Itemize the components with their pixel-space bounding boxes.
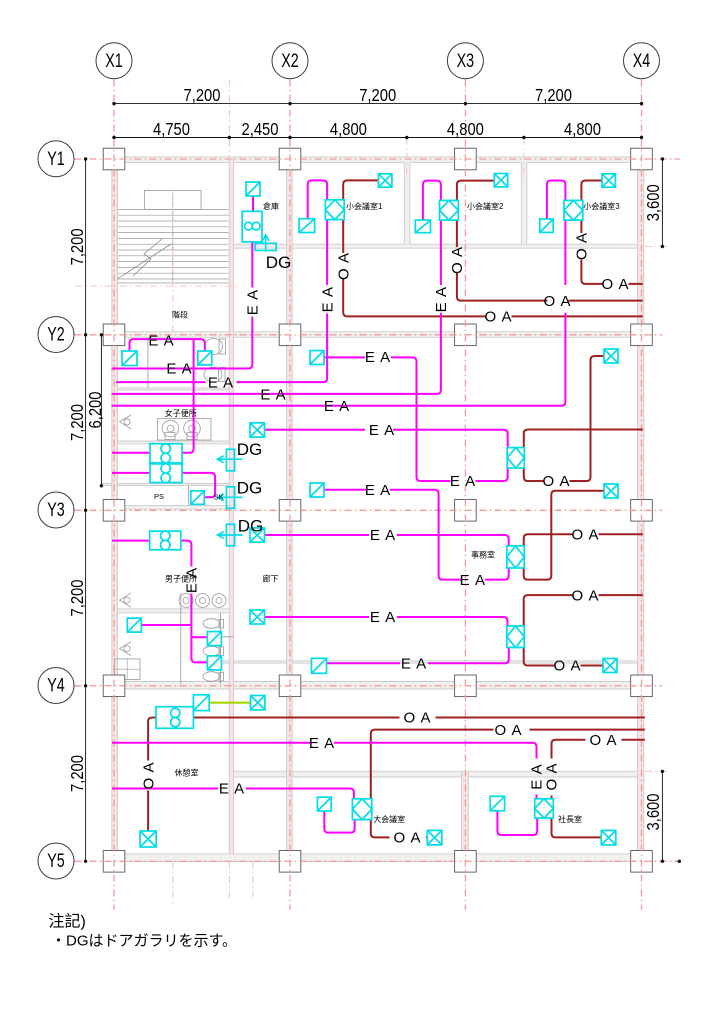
wall: exterior south wall on Y5 xyxy=(104,854,652,862)
door grille DG: corridor 1 xyxy=(226,449,234,471)
heat exchanger unit: meeting room 2 xyxy=(440,200,459,220)
svg-text:E A: E A xyxy=(309,735,335,752)
svg-text:E A: E A xyxy=(370,609,396,626)
heat exchanger unit HX5 presidents room xyxy=(535,799,554,818)
svg-text:E A: E A xyxy=(148,333,174,350)
grid line X2 xyxy=(289,80,291,911)
heat exchanger unit HX3 xyxy=(507,626,524,648)
supply grille: womens toilet east xyxy=(198,351,212,365)
svg-text:休憩室: 休憩室 xyxy=(175,768,199,778)
svg-text:E A: E A xyxy=(166,361,192,378)
svg-text:Y4: Y4 xyxy=(47,676,65,697)
svg-text:PS: PS xyxy=(154,492,164,501)
svg-text:2,450: 2,450 xyxy=(242,119,279,139)
transfer grille: corridor south east xyxy=(251,696,265,710)
supply grille: corridor north xyxy=(310,351,324,365)
EA duct: break room line into HX4 xyxy=(112,789,354,799)
wall: partition meeting room 1/2 xyxy=(404,162,410,244)
svg-text:男子便所: 男子便所 xyxy=(165,574,197,584)
svg-text:O A: O A xyxy=(542,473,570,490)
svg-text:7,200: 7,200 xyxy=(535,85,572,105)
grid bubble X4 xyxy=(624,43,660,79)
svg-text:・DGはドアガラリを示す。: ・DGはドアガラリを示す。 xyxy=(51,933,237,950)
svg-text:X1: X1 xyxy=(105,51,123,72)
heat exchanger unit: meeting room 3 xyxy=(564,200,583,220)
svg-text:E A: E A xyxy=(369,422,395,439)
svg-text:O A: O A xyxy=(571,587,599,604)
fixtures: SK mop sink xyxy=(115,659,141,680)
svg-text:4,800: 4,800 xyxy=(330,119,367,139)
OA duct: break room fan intake xyxy=(148,718,645,832)
columns at grid intersections xyxy=(103,148,125,170)
svg-text:E A: E A xyxy=(365,349,391,366)
svg-text:SK: SK xyxy=(214,493,224,502)
EA duct: meeting room 3 branch xyxy=(112,181,566,406)
svg-text:6,200: 6,200 xyxy=(85,391,105,428)
outdoor air outlet: office mid xyxy=(604,484,618,498)
EA duct: warehouse fan riser xyxy=(112,196,254,369)
wall: corridor west wall xyxy=(229,157,233,854)
svg-text:O A: O A xyxy=(335,252,352,280)
svg-text:E A: E A xyxy=(450,473,476,490)
svg-text:O A: O A xyxy=(543,293,571,310)
svg-text:3,600: 3,600 xyxy=(643,793,663,830)
supply grille: corridor to HX2 xyxy=(310,483,324,497)
wall: north wall of south rooms xyxy=(234,771,645,777)
svg-text:O A: O A xyxy=(601,276,629,293)
supply grille: womens toilet west xyxy=(122,351,137,366)
door grille DG: corridor 3 xyxy=(226,524,234,546)
EA duct: womens fan inlets xyxy=(112,453,150,473)
grid line Y3 xyxy=(75,509,663,511)
OA duct: meeting room 3 xyxy=(581,181,642,284)
svg-text:X2: X2 xyxy=(281,51,299,72)
supply grille: mens toilet west xyxy=(127,618,141,632)
supply grille: SK closet xyxy=(191,491,205,505)
EA duct: womens fan1 riser xyxy=(182,339,194,453)
svg-text:DG: DG xyxy=(237,479,263,498)
svg-text:O A: O A xyxy=(140,761,157,789)
wall: corridor north wall south zone xyxy=(196,661,644,663)
EA duct: grille line into HX2 top xyxy=(265,535,509,546)
svg-text:O A: O A xyxy=(553,658,581,675)
wall: partition meeting room 2/3 xyxy=(521,162,527,244)
svg-text:大会議室: 大会議室 xyxy=(373,814,405,824)
svg-text:7,200: 7,200 xyxy=(67,579,87,616)
supply grille: meeting room 1 xyxy=(299,219,315,233)
svg-text:O A: O A xyxy=(494,722,522,739)
grid bubble X3 xyxy=(447,43,483,79)
svg-text:4,750: 4,750 xyxy=(153,119,190,139)
fan: break room OA fan xyxy=(156,707,193,729)
outdoor air intake: break room xyxy=(140,831,156,847)
svg-text:X4: X4 xyxy=(633,51,651,72)
svg-text:社長室: 社長室 xyxy=(558,814,582,824)
EA duct: grille line into HX3 top xyxy=(265,617,508,626)
OA duct: HX1 supply from outside wall xyxy=(524,430,643,448)
svg-text:X3: X3 xyxy=(457,51,475,72)
OA duct: HX4 to room outlet xyxy=(371,820,428,838)
wall: exterior north wall on Y1 xyxy=(104,157,652,163)
OA duct: HX2 supply from outside wall xyxy=(524,534,643,546)
fan: warehouse exhaust fan xyxy=(242,211,262,242)
EA duct: womens toilet grille pair header xyxy=(130,339,205,352)
heat exchanger unit HX1 xyxy=(507,448,524,468)
wall: exterior west wall on X1 xyxy=(112,157,118,862)
svg-text:小会議室1: 小会議室1 xyxy=(346,201,383,211)
grid bubble Y5 xyxy=(38,843,74,879)
wall: womens toilet south wall xyxy=(111,441,233,444)
svg-text:7,200: 7,200 xyxy=(184,85,221,105)
grid bubble Y3 xyxy=(38,492,74,528)
OA duct: HX3 supply from outside wall xyxy=(524,595,643,626)
EA duct: south long line into HX5 xyxy=(112,743,537,799)
fixtures: womens toilet basins xyxy=(158,419,212,441)
EA duct: mens toilet fan inlet xyxy=(112,540,150,542)
svg-text:Y3: Y3 xyxy=(47,500,65,521)
supply grille: meeting room 3 xyxy=(540,219,553,232)
svg-text:廊下: 廊下 xyxy=(263,574,279,584)
wall: urinal counter wall xyxy=(118,609,233,613)
supply grille: large meeting room xyxy=(317,797,331,811)
svg-text:O A: O A xyxy=(484,309,512,326)
outdoor air outlet: large meeting room xyxy=(427,830,442,845)
grid line Y4 xyxy=(75,685,663,687)
fan: womens toilet fan 1 xyxy=(150,444,182,463)
svg-text:注記): 注記) xyxy=(49,913,86,931)
wall: corridor wall south of meeting rooms xyxy=(234,244,645,248)
grid line Y5 xyxy=(75,860,681,862)
EA duct: HX5 to grille xyxy=(497,811,537,835)
wall: mens toilet partitions xyxy=(180,593,182,684)
wall: wall on grid Y3 at toilets xyxy=(111,506,233,510)
supply grille: meeting room 2 xyxy=(415,220,430,233)
heat exchanger unit HX2 office xyxy=(507,546,524,568)
OA duct: HX3 to room outlet xyxy=(524,648,603,666)
wall: wall on grid Y2 xyxy=(111,332,644,338)
OA duct: HX5 to room outlet xyxy=(552,818,602,837)
wall: PS/SK north wall xyxy=(102,484,234,486)
svg-text:E A: E A xyxy=(319,286,336,312)
svg-text:E A: E A xyxy=(365,482,391,499)
OA duct: HX2 to room outlet xyxy=(524,491,604,580)
EA duct: womens fan2 to SK grille xyxy=(182,473,215,497)
fan: womens toilet fan 2 xyxy=(150,464,182,483)
exhaust grille: corridor EA to HX1 xyxy=(250,423,265,437)
EA duct: corridor line to meeting room1 xyxy=(116,180,327,382)
grid line Y2 xyxy=(75,334,663,336)
svg-text:E A: E A xyxy=(433,286,450,312)
grid bubble Y2 xyxy=(38,317,74,353)
wall: wall on grid X2 xyxy=(287,157,293,854)
fixtures: mens WCs xyxy=(203,619,224,682)
grid line X3 xyxy=(464,80,466,911)
grid line X1 xyxy=(113,80,115,911)
exhaust grille: corridor EA to HX2 xyxy=(250,528,265,542)
grid bubble Y4 xyxy=(38,668,74,704)
wall: exterior east wall on X4 xyxy=(637,157,643,862)
svg-text:Y2: Y2 xyxy=(47,325,65,346)
EA duct: corridor grille stub xyxy=(324,356,327,358)
svg-text:DG: DG xyxy=(237,440,263,459)
heat exchanger unit: meeting room 1 xyxy=(325,200,344,220)
svg-text:階段: 階段 xyxy=(172,310,188,320)
svg-text:O A: O A xyxy=(449,246,466,274)
OA duct: HX4 supply from outside wall xyxy=(371,730,645,799)
wall: wall on grid Y4 xyxy=(111,682,644,690)
svg-text:7,200: 7,200 xyxy=(67,228,87,265)
svg-text:事務室: 事務室 xyxy=(471,550,495,560)
svg-text:小会議室3: 小会議室3 xyxy=(583,201,620,211)
svg-text:4,800: 4,800 xyxy=(447,119,484,139)
svg-text:7,200: 7,200 xyxy=(67,755,87,792)
OA duct: meeting room 1 xyxy=(343,180,643,316)
svg-text:小会議室2: 小会議室2 xyxy=(467,201,504,211)
svg-text:E A: E A xyxy=(370,527,396,544)
grid bubble X2 xyxy=(272,43,308,79)
OA duct: HX5 supply from outside wall xyxy=(552,740,645,799)
svg-text:DG: DG xyxy=(266,253,292,272)
fixtures: womens toilet WCs xyxy=(204,339,226,383)
svg-text:女子便所: 女子便所 xyxy=(165,408,197,418)
heat exchanger unit HX4 large meeting room xyxy=(352,799,371,820)
EA duct: meeting room 2 branch xyxy=(112,181,441,394)
fan: mens toilet fan xyxy=(150,531,181,550)
svg-text:O A: O A xyxy=(571,527,599,544)
dimension lines xyxy=(114,103,642,105)
svg-text:O A: O A xyxy=(403,710,431,727)
svg-text:E A: E A xyxy=(219,781,245,798)
EA duct: grille to HX2 bottom xyxy=(324,490,509,580)
svg-text:E A: E A xyxy=(208,374,234,391)
svg-text:7,200: 7,200 xyxy=(359,85,396,105)
exhaust cap: meeting room 3 xyxy=(602,174,615,187)
exhaust grille: corridor EA to HX3 xyxy=(250,610,265,624)
EA duct: grille line into HX1 top xyxy=(265,430,508,448)
grid line Y1 xyxy=(75,158,681,160)
svg-text:倉庫: 倉庫 xyxy=(263,201,279,211)
EA duct: corridor header to HX1 bottom xyxy=(327,357,508,481)
stair break line xyxy=(133,239,162,276)
grid bubble Y1 xyxy=(38,141,74,177)
door grille DG: warehouse xyxy=(255,243,276,250)
EA duct: HX4 to grille xyxy=(324,811,354,833)
supply grille: corridor to HX3 bottom xyxy=(312,658,327,673)
svg-text:E A: E A xyxy=(324,398,350,415)
svg-text:E A: E A xyxy=(460,572,486,589)
supply grille: presidents room xyxy=(490,796,504,811)
fixtures: wall basins xyxy=(120,415,132,429)
outdoor air outlet: presidents room xyxy=(601,830,616,845)
svg-text:E A: E A xyxy=(401,656,427,673)
grid bubble X1 xyxy=(96,43,132,79)
stair xyxy=(172,190,174,283)
svg-text:Y1: Y1 xyxy=(47,149,65,170)
svg-text:E A: E A xyxy=(245,289,262,315)
svg-text:E A: E A xyxy=(260,386,286,403)
svg-text:O A: O A xyxy=(574,232,591,260)
outdoor air outlet: office south xyxy=(603,659,617,673)
green transfer duct xyxy=(209,702,250,704)
svg-text:O A: O A xyxy=(544,762,561,790)
wall: womens toilet stall wall xyxy=(111,388,233,390)
transfer grille: corridor south west xyxy=(193,695,209,711)
secondary grid lines xyxy=(228,80,230,190)
supply grille: mens toilet stall 1 xyxy=(207,632,221,646)
svg-text:O A: O A xyxy=(589,732,617,749)
exhaust cap: meeting room 1 xyxy=(379,174,392,187)
supply grille: warehouse xyxy=(246,182,260,196)
EA duct: mens toilet fan distribution xyxy=(141,541,207,663)
supply grille: mens toilet stall 2 xyxy=(207,656,221,670)
OA duct: HX1 to room outlet xyxy=(524,356,604,481)
svg-text:7,200: 7,200 xyxy=(67,404,87,441)
stair up-line xyxy=(118,244,171,279)
svg-text:3,600: 3,600 xyxy=(643,184,663,221)
door grille DG: corridor 2 xyxy=(226,487,234,509)
outdoor air outlet: office north xyxy=(604,349,618,363)
svg-text:O A: O A xyxy=(393,830,421,847)
svg-text:DG: DG xyxy=(238,517,264,536)
OA duct: meeting room 2 xyxy=(457,181,643,301)
svg-text:4,800: 4,800 xyxy=(564,119,601,139)
EA duct: grille to HX3 bottom xyxy=(327,648,509,664)
grid line X4 xyxy=(641,80,643,911)
wall: partition on X3 south rooms xyxy=(462,771,469,854)
svg-text:Y5: Y5 xyxy=(47,851,65,872)
exhaust cap: meeting room 2 xyxy=(494,174,507,187)
fixtures: mens urinals xyxy=(179,594,226,608)
